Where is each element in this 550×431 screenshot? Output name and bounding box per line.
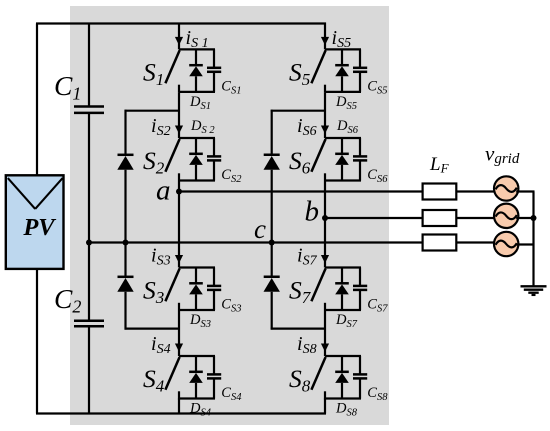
wire phase b to source: [456, 217, 496, 219]
capacitor C2: [74, 321, 104, 327]
label D_S6: [336, 118, 359, 136]
diode D_S6: [335, 138, 349, 181]
wire left leg seg5: [178, 399, 180, 414]
wire right leg seg2: [324, 93, 326, 138]
capacitor C_S2: [207, 138, 221, 181]
label S3: [143, 276, 164, 308]
wire clamp column middle: [271, 170, 273, 277]
diode D_S5: [335, 49, 349, 92]
clamp diode lower: [117, 277, 133, 292]
label D_S4: [189, 401, 212, 419]
label node a: [156, 175, 171, 207]
diode D_S7: [335, 268, 349, 311]
switch S1: [165, 50, 179, 93]
wire cell 2 bottom stub: [179, 179, 215, 181]
wire phase b: [325, 217, 424, 219]
wire left leg seg2: [178, 93, 180, 138]
wire clamp column lower: [124, 292, 126, 330]
label C_S7: [367, 297, 388, 315]
wire left leg seg1: [178, 24, 180, 50]
PV chevron: [8, 178, 63, 209]
wire clamp top junction: [271, 110, 325, 112]
current arrow i_S3: [175, 255, 183, 263]
capacitor C_S5: [353, 49, 367, 92]
label S8: [289, 364, 311, 396]
wire cell 3 top stub: [179, 266, 215, 268]
label C_S8: [367, 385, 388, 403]
clamp diode upper: [264, 155, 280, 170]
capacitor C1: [74, 107, 104, 113]
switch S6: [311, 139, 325, 182]
wire source a to neutral bus: [516, 190, 534, 192]
wire left leg seg4: [178, 311, 180, 356]
wire cell 4 bottom stub: [179, 397, 215, 399]
current arrow i_S7: [321, 255, 329, 263]
label S2: [143, 146, 165, 178]
label S4: [143, 364, 165, 396]
inductor L_F phase b: [423, 210, 457, 226]
svg-text:vgrid: vgrid: [485, 142, 520, 168]
node a junction: [176, 189, 182, 195]
clamp diode lower: [264, 277, 280, 292]
switch S7: [311, 269, 325, 312]
junction left clamp midpoint: [123, 240, 129, 246]
wire clamp bottom junction: [271, 328, 325, 330]
capacitor C_S8: [353, 356, 367, 399]
inductor L_F phase a: [423, 184, 457, 200]
label node b: [305, 196, 320, 228]
label S7: [289, 276, 312, 308]
label D_S8: [335, 401, 358, 419]
PV label: [22, 214, 56, 241]
wire dc-link column middle: [88, 114, 90, 321]
wire clamp column upper: [124, 110, 126, 155]
current arrow i_S4: [175, 344, 183, 352]
label D_S7: [335, 312, 358, 330]
wire cell 1 top stub: [179, 48, 215, 50]
label C_S6: [367, 167, 388, 185]
wire cell 6 bottom stub: [325, 179, 361, 181]
junction dc-link midpoint: [86, 240, 92, 246]
capacitor C_S6: [353, 138, 367, 181]
label L_F: [429, 154, 450, 176]
wire PV bottom to bottom bus: [36, 269, 38, 414]
wire cell 2 top stub: [179, 137, 215, 139]
ground: [521, 286, 547, 295]
diode D_S1: [189, 49, 203, 92]
wire top bus: [36, 22, 326, 24]
capacitor C_S7: [353, 268, 367, 311]
wire clamp bottom junction: [125, 328, 180, 330]
wire source c to neutral bus: [516, 243, 534, 245]
label i_S2: [151, 115, 171, 139]
switch S4: [165, 357, 179, 400]
wire right leg seg4: [324, 311, 326, 356]
wire bottom bus: [36, 412, 326, 414]
label C_S4: [221, 385, 242, 403]
current arrow i_S1: [175, 37, 183, 45]
current arrow i_S6: [321, 126, 329, 134]
label i_S4: [151, 333, 171, 357]
label node c: [254, 214, 266, 244]
ac source v_grid phase b: [494, 204, 518, 228]
switch S8: [311, 357, 325, 400]
wire phase a to source: [456, 190, 496, 192]
label v_grid: [485, 142, 520, 168]
svg-text:LF: LF: [429, 154, 450, 176]
wire cell 7 top stub: [325, 266, 361, 268]
wire cell 8 bottom stub: [325, 397, 361, 399]
capacitor C_S3: [207, 268, 221, 311]
diode D_S8: [335, 356, 349, 399]
node c junction: [269, 240, 275, 246]
current arrow i_S8: [321, 344, 329, 352]
clamp diode upper: [117, 155, 133, 170]
label C_S1: [221, 78, 241, 96]
wire cell 6 top stub: [325, 137, 361, 139]
label C_S3: [221, 297, 241, 315]
svg-text:c: c: [254, 214, 266, 244]
wire source b to neutral bus: [516, 217, 534, 219]
capacitor C_S4: [207, 356, 221, 399]
ac source v_grid phase c: [494, 232, 518, 256]
current arrow i_S2: [175, 126, 183, 134]
wire cell 5 top stub: [325, 48, 361, 50]
label S1: [143, 57, 164, 89]
label D_S3: [189, 312, 211, 330]
wire clamp column lower: [271, 292, 273, 330]
junction right neutral: [531, 215, 537, 221]
wire right leg seg5: [324, 399, 326, 414]
label i_S8: [297, 333, 317, 357]
label C2: [54, 283, 81, 317]
switch S2: [165, 139, 179, 182]
wire cell 1 bottom stub: [179, 91, 215, 93]
gray converter background box: [70, 6, 389, 425]
label D_S2: [190, 118, 215, 136]
wire cell 3 bottom stub: [179, 309, 215, 311]
wire phase a: [179, 190, 424, 192]
label i_S5: [332, 27, 352, 51]
wire clamp top junction: [125, 110, 180, 112]
diode D_S2: [189, 138, 203, 181]
label C1: [54, 70, 81, 104]
label D_S5: [335, 94, 357, 112]
wire dc-link column lower: [88, 327, 90, 414]
wire cell 7 bottom stub: [325, 309, 361, 311]
wire PV top to top bus: [36, 24, 38, 176]
label S6: [289, 146, 311, 178]
label S5: [289, 57, 310, 89]
node b junction: [322, 215, 328, 221]
switch S3: [165, 269, 179, 312]
wire cell 8 top stub: [325, 355, 361, 357]
wire neutral / phase c: [89, 241, 424, 243]
wire dc-link column upper: [88, 24, 90, 107]
label C_S5: [367, 78, 387, 96]
diode D_S3: [189, 268, 203, 311]
wire clamp column middle: [124, 170, 126, 277]
label i_S7: [297, 245, 318, 269]
svg-text:PV: PV: [22, 214, 56, 241]
label D_S1: [189, 94, 211, 112]
wire cell 5 bottom stub: [325, 91, 361, 93]
label i_S1: [186, 27, 209, 51]
label i_S3: [151, 245, 171, 269]
wire cell 4 top stub: [179, 355, 215, 357]
svg-text:a: a: [156, 175, 171, 207]
wire left leg seg3: [178, 182, 180, 268]
wire clamp column upper: [271, 110, 273, 155]
capacitor C_S1: [207, 49, 221, 92]
ac source v_grid phase a: [494, 176, 518, 200]
wire right leg seg3: [324, 182, 326, 268]
current arrow i_S5: [321, 37, 329, 45]
label i_S6: [297, 115, 317, 139]
wire right leg seg1: [324, 23, 326, 50]
wire phase c to source: [456, 241, 496, 243]
label C_S2: [221, 167, 242, 185]
inductor L_F phase c: [423, 235, 457, 251]
wire right neutral vertical: [532, 192, 534, 287]
svg-text:b: b: [305, 196, 320, 228]
PV source box: [6, 175, 64, 269]
switch S5: [311, 50, 325, 93]
diode D_S4: [189, 356, 203, 399]
